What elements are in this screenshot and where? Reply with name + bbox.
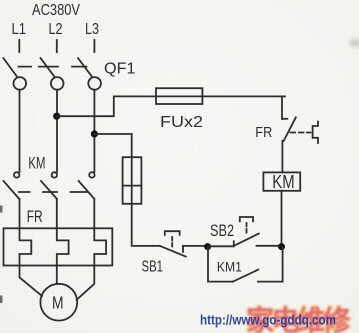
wire FR to motor phase 3 [77,266,95,300]
fuse FU2 (vertical) [123,157,142,204]
label FR [27,208,43,226]
svg-text:FR: FR [255,124,272,141]
junction node B [278,243,285,250]
FR heater element phase 2 [57,228,69,265]
pushbutton SB1 normally closed stop [160,231,206,256]
label KM [28,153,45,172]
wire coil to node B [281,191,283,247]
label KM1 [217,258,242,274]
wire FR to motor phase 1 [20,266,43,297]
watermark URL [200,312,336,328]
wire control feed from L3 to FU2 [94,134,131,157]
circuit breaker QF1 pole 1 [3,58,26,90]
svg-text:KM1: KM1 [217,258,242,274]
label AC380V [32,2,80,19]
node L1 [12,21,27,38]
wire L3 stub [93,40,95,52]
svg-text:AC380V: AC380V [32,2,80,19]
node L3 [85,21,99,38]
svg-text:FUx2: FUx2 [160,114,203,131]
wire FU2 to SB1 [132,204,160,246]
scan edge artifacts [0,39,359,303]
svg-text:http://www.go-gddq.com: http://www.go-gddq.com [200,312,336,328]
svg-text:KM: KM [272,172,294,192]
wire L2 stub [56,40,58,52]
FR heater element phase 1 [20,228,32,265]
KM linkage dashed bar [19,191,88,193]
thermal relay FR heater box [4,228,113,265]
label FR control [255,124,272,141]
junction dot L3 control tap [91,130,98,137]
QF1 linkage dashed bar [19,66,87,68]
svg-text:QF1: QF1 [104,61,136,78]
wire L1 stub [18,40,20,52]
motor M [40,284,77,321]
label SB1 [142,259,164,276]
circuit breaker QF1 pole 2 [41,58,64,90]
label SB2 [210,222,234,240]
svg-text:L3: L3 [85,21,99,38]
svg-text:L1: L1 [12,21,27,38]
contact KM1 normally open auxiliary [208,247,283,282]
watermark red characters [246,304,352,333]
node L2 [49,21,63,38]
thermal relay contact FR normally closed [282,117,318,172]
label FUx2 [160,114,203,131]
wire control feed from L2 to FUx2 [57,96,156,116]
contactor KM main contact pole 2 [41,172,57,199]
wire KM pole2 to FR [56,199,58,229]
svg-text:FR: FR [27,208,43,226]
wire KM pole3 to FR [93,199,95,229]
contactor KM main contact pole 3 [79,172,95,199]
FR heater element phase 3 [94,228,106,265]
wire FUx2 to FR contact [202,96,285,118]
label QF1 [104,61,136,78]
svg-text:M: M [52,293,64,313]
svg-text:KM: KM [28,153,45,172]
wire FR to motor phase 2 [56,266,58,285]
svg-text:SB2: SB2 [210,222,234,240]
coil KM [263,172,300,192]
svg-text:SB1: SB1 [142,259,164,276]
circuit breaker QF1 pole 3 [78,58,101,90]
wire L3 vertical [93,90,95,172]
contactor KM main contact pole 1 [4,172,20,199]
junction node A [204,243,211,250]
fuse FUx2 (horizontal) [156,88,202,104]
svg-text:L2: L2 [49,21,63,38]
wire L2 vertical [56,90,58,172]
wire KM pole1 to FR [19,199,21,229]
wire L1 vertical [19,90,21,172]
junction dot L2 control tap [53,113,60,120]
pushbutton SB2 normally open start [210,217,282,246]
